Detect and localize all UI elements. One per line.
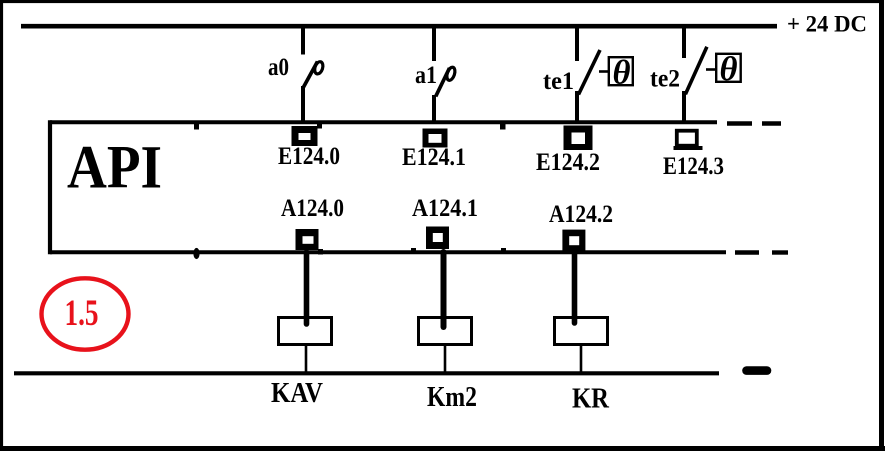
+24V DC supply rail bbox=[21, 24, 777, 29]
svg-text:E124.1: E124.1 bbox=[402, 144, 466, 171]
junction tick right of E124.0 bbox=[317, 123, 322, 129]
svg-text:Km2: Km2 bbox=[427, 382, 477, 413]
svg-text:A124.2: A124.2 bbox=[549, 201, 613, 228]
svg-text:θ: θ bbox=[613, 55, 631, 92]
sheet reference marker 1.5 bbox=[42, 278, 129, 349]
svg-text:A124.1: A124.1 bbox=[412, 195, 478, 222]
input terminal E124.2 bbox=[564, 126, 593, 151]
output terminal A124.2 bbox=[562, 230, 585, 252]
switch a1 (limit switch, NO) bbox=[434, 26, 456, 124]
thermal switch te2 (NC contact) bbox=[684, 26, 716, 124]
coil Km2 bbox=[419, 318, 472, 345]
svg-text:E124.2: E124.2 bbox=[536, 149, 600, 176]
svg-text:API: API bbox=[67, 135, 162, 202]
thermal element box te1 bbox=[609, 55, 633, 92]
output terminal A124.0 bbox=[296, 229, 319, 250]
svg-text:KR: KR bbox=[572, 384, 610, 415]
API output line (A terminals) bbox=[50, 250, 726, 254]
wire coil KR to 0V rail bbox=[580, 344, 583, 373]
svg-text:KAV: KAV bbox=[271, 378, 323, 409]
minus supply terminal bbox=[747, 366, 768, 375]
svg-text:A124.0: A124.0 bbox=[281, 195, 344, 222]
svg-text:+ 24 DC: + 24 DC bbox=[787, 12, 867, 37]
svg-text:te1: te1 bbox=[543, 68, 574, 95]
svg-text:a1: a1 bbox=[415, 62, 437, 89]
wire A124.2 to coil KR bbox=[572, 252, 578, 323]
API block left edge bbox=[48, 120, 52, 254]
wire A124.1 to coil Km2 bbox=[441, 252, 447, 327]
junction tick on input line bbox=[194, 123, 199, 130]
output terminal A124.1 bbox=[426, 227, 449, 250]
junction tick on output line left bbox=[193, 248, 199, 259]
junction tick right of A124.0 bbox=[318, 249, 323, 255]
wire coil KAV to 0V rail bbox=[305, 344, 308, 373]
coil KAV bbox=[279, 318, 332, 345]
thermal switch te1 (NC contact) bbox=[577, 26, 609, 124]
input terminal E124.3 bbox=[674, 131, 703, 148]
junction tick on output line right bbox=[501, 248, 506, 253]
thermal element box te2 bbox=[716, 51, 741, 88]
junction tick on input line near x500 bbox=[500, 123, 506, 130]
svg-text:te2: te2 bbox=[650, 66, 680, 93]
svg-text:E124.3: E124.3 bbox=[663, 153, 724, 180]
0V return rail bbox=[14, 371, 719, 375]
input terminal E124.0 bbox=[292, 126, 318, 146]
API input line (E terminals) bbox=[50, 120, 717, 124]
junction tick on output line mid bbox=[411, 248, 416, 253]
switch a0 (limit switch, NO) bbox=[303, 26, 324, 124]
svg-text:a0: a0 bbox=[268, 54, 289, 81]
svg-text:1.5: 1.5 bbox=[65, 293, 99, 334]
svg-text:θ: θ bbox=[720, 51, 738, 88]
wire A124.0 to coil KAV bbox=[304, 252, 310, 324]
wire coil Km2 to 0V rail bbox=[444, 344, 447, 373]
output line continuation dashes bbox=[735, 250, 788, 254]
svg-text:E124.0: E124.0 bbox=[278, 143, 340, 170]
input line continuation dashes bbox=[727, 121, 781, 125]
input terminal E124.1 bbox=[423, 129, 448, 148]
coil KR bbox=[555, 318, 608, 345]
